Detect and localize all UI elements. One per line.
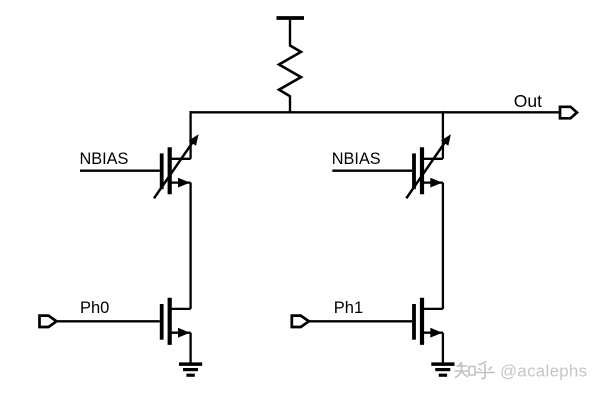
transistor M3 channel bar <box>168 298 172 345</box>
wire output rail <box>190 111 561 113</box>
transistor M2 source arrow <box>430 178 442 188</box>
transistor M4 source arrow <box>430 328 442 338</box>
transistor M1 channel bar <box>168 147 172 194</box>
transistor M3 source stub <box>170 332 191 334</box>
transistor M1 source stub <box>170 181 191 183</box>
svg-text:Out: Out <box>514 91 542 111</box>
transistor M4 gate bar <box>412 304 416 340</box>
wire M4 source to ground <box>442 333 444 363</box>
transistor M1 source arrow <box>178 178 190 188</box>
wire NBIAS to M2 gate <box>332 170 412 172</box>
transistor M2 drain stub <box>422 158 443 160</box>
wire Ph1 pin to M4 gate <box>308 320 412 322</box>
transistor M3 source arrow <box>178 328 190 338</box>
ground (left) <box>179 364 202 375</box>
wire resistor to output rail <box>289 96 291 114</box>
wire rail to M2 drain <box>442 111 444 159</box>
input pin Ph1 <box>292 316 309 327</box>
transistor M2 gate bar <box>412 153 416 189</box>
svg-text:Ph0: Ph0 <box>80 299 109 317</box>
power rail VDD bar <box>277 16 305 20</box>
wire M3 source to ground <box>189 333 191 363</box>
transistor M4 channel bar <box>420 298 424 345</box>
transistor M4 source stub <box>422 332 443 334</box>
wire rail to M1 drain <box>189 111 191 159</box>
transistor M1 drain stub <box>170 158 191 160</box>
wire VDD to resistor <box>289 18 291 47</box>
variable arrow across M2 <box>406 141 446 198</box>
input pin Ph0 <box>40 316 57 327</box>
transistor M4 drain stub <box>422 308 443 310</box>
wire Ph0 pin to M3 gate <box>56 320 160 322</box>
ground (right) <box>431 364 454 375</box>
watermark Zhihu logo glyphs <box>455 362 494 379</box>
svg-text:@acalephs: @acalephs <box>500 362 587 381</box>
transistor M2 channel bar <box>420 147 424 194</box>
wire NBIAS to M1 gate <box>80 170 160 172</box>
svg-text:Ph1: Ph1 <box>334 299 363 317</box>
svg-text:NBIAS: NBIAS <box>332 150 381 168</box>
variable arrow across M1 <box>154 141 194 198</box>
transistor M3 gate bar <box>160 304 164 340</box>
output pin Out <box>560 107 577 119</box>
transistor M3 drain stub <box>170 308 191 310</box>
svg-text:NBIAS: NBIAS <box>80 150 129 168</box>
resistor R1 <box>279 46 301 97</box>
wire M2 source to M4 drain <box>442 183 444 309</box>
transistor M1 gate bar <box>160 153 164 189</box>
transistor M2 source stub <box>422 181 443 183</box>
wire M1 source to M3 drain <box>189 183 191 309</box>
